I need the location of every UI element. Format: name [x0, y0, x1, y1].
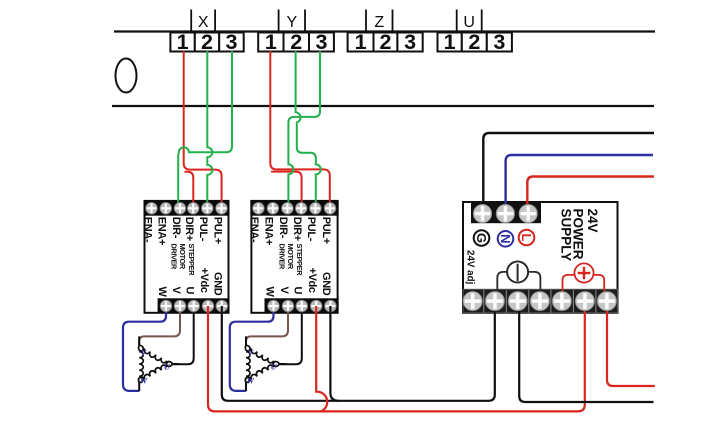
- terminal screws of driver U1: [146, 202, 228, 311]
- svg-text:DIR+: DIR+: [183, 217, 195, 241]
- axis label Y: [279, 10, 305, 32]
- PSU terminal label L (line): [519, 230, 535, 246]
- wire Y-motor U black (driver U to motor winding): [279, 306, 301, 364]
- svg-text:DIR+: DIR+: [291, 217, 303, 241]
- svg-text:DIR-: DIR-: [277, 217, 289, 239]
- svg-text:24V: 24V: [585, 209, 600, 233]
- wire Y-motor W blue (driver W to motor winding): [230, 306, 274, 391]
- svg-text:X: X: [198, 14, 209, 31]
- svg-text:ENA+: ENA+: [156, 217, 168, 245]
- svg-text:GND: GND: [320, 272, 332, 296]
- axis label Z: [366, 10, 393, 32]
- wire PSU +V out red (to right): [607, 306, 655, 386]
- wire: second bus line: [112, 105, 654, 107]
- wire Y3 green (terminal Y3 to DIR- of driver U2, hop over red): [288, 51, 320, 207]
- svg-text:W: W: [156, 287, 168, 298]
- svg-text:MOTOR: MOTOR: [178, 244, 187, 270]
- svg-text:STEPPER: STEPPER: [187, 244, 196, 277]
- svg-text:+Vdc: +Vdc: [306, 268, 318, 293]
- wire PSU -V out black (to right): [519, 306, 653, 402]
- svg-text:U: U: [271, 362, 278, 372]
- svg-text:U: U: [184, 287, 196, 295]
- terminal block Z pins 1-3: [348, 30, 423, 54]
- wire X3 green (terminal X3 to DIR- of driver U1, hop over X1): [178, 51, 232, 207]
- svg-text:1: 1: [177, 30, 189, 54]
- svg-text:1: 1: [444, 30, 456, 54]
- PSU DC output terminal strip: [463, 289, 618, 313]
- svg-text:U: U: [463, 14, 475, 31]
- svg-text:PUL+: PUL+: [320, 217, 332, 244]
- PSU label 24V adj: [464, 250, 475, 285]
- svg-text:2: 2: [290, 30, 302, 54]
- terminal screws of driver U2: [253, 202, 337, 311]
- PSU label 24V POWER SUPPLY: [558, 209, 600, 262]
- svg-text:3: 3: [315, 30, 327, 54]
- PSU terminal label N (neutral): [498, 231, 514, 247]
- terminal block Y pins 1-3: [258, 30, 334, 54]
- svg-text:3: 3: [225, 30, 237, 54]
- svg-text:GND: GND: [212, 272, 224, 296]
- svg-text:24V adj: 24V adj: [464, 250, 475, 285]
- svg-text:Z: Z: [374, 14, 384, 31]
- svg-text:U: U: [164, 362, 171, 372]
- wire Y1 red (terminal Y1 to DIR+/PUL+ of driver U2): [270, 51, 330, 207]
- wire GND rail black (driver U1 GND to PSU -V): [222, 306, 495, 401]
- stepper motor driver U1 (X axis): [141, 200, 229, 313]
- PSU +V output symbol (red circle with plus): [563, 263, 605, 291]
- stepper motor M2 (Y axis): [245, 336, 286, 391]
- terminal block X pins 1-3: [170, 30, 243, 54]
- wire AC ground black (right rail to PSU G): [483, 133, 654, 213]
- PSU AC terminal screws: [473, 204, 537, 222]
- wire +24V rail red (driver U1 +Vdc to PSU +V): [208, 306, 585, 411]
- svg-text:STEPPER: STEPPER: [295, 244, 304, 277]
- wire Y-motor V brown (driver V to motor winding): [246, 306, 288, 345]
- svg-text:DIR-: DIR-: [170, 217, 182, 239]
- wire X-motor V brown (driver V to motor winding): [139, 306, 180, 345]
- 24V power supply PSU body and AC terminal strip: [463, 202, 618, 313]
- svg-text:2: 2: [468, 30, 480, 54]
- svg-text:N: N: [498, 234, 513, 243]
- svg-text:DRIVER: DRIVER: [277, 244, 286, 271]
- svg-text:1: 1: [355, 30, 367, 54]
- axis label X: [191, 10, 215, 32]
- wire X1 red (terminal X1 to DIR+/PUL+ of driver U1): [184, 51, 222, 207]
- axis label U: [457, 10, 482, 32]
- wire AC neutral blue (right rail to PSU N): [506, 155, 653, 213]
- wire X2 green (terminal X2 to PUL- of driver U1, hops over X3 and X1 wires): [207, 51, 212, 207]
- wire driver U2 GND joining rail: [330, 306, 338, 401]
- PSU voltage-adjust symbol (circle with bar): [497, 262, 540, 292]
- svg-text:U: U: [292, 287, 304, 295]
- svg-text:ENA-: ENA-: [248, 217, 260, 243]
- svg-text:PUL-: PUL-: [305, 217, 317, 242]
- svg-text:2: 2: [379, 30, 391, 54]
- stepper motor M1 (X axis): [139, 336, 180, 391]
- svg-text:ENA+: ENA+: [263, 217, 275, 245]
- svg-text:L: L: [519, 234, 534, 242]
- svg-text:G: G: [474, 233, 489, 243]
- wire X-motor W blue (driver W to motor winding): [123, 306, 166, 391]
- stepper motor driver U2 (Y axis): [248, 200, 338, 313]
- svg-text:MOTOR: MOTOR: [286, 244, 295, 270]
- svg-text:3: 3: [493, 30, 505, 54]
- svg-text:Y: Y: [286, 14, 297, 31]
- svg-text:W: W: [263, 287, 275, 298]
- svg-text:PUL-: PUL-: [197, 217, 209, 242]
- wire: top bus line: [114, 30, 655, 32]
- wire X-motor U black (driver U to motor winding): [173, 306, 194, 364]
- svg-text:SUPPLY: SUPPLY: [558, 209, 573, 262]
- PSU DC terminal screws: [463, 292, 616, 311]
- svg-text:2: 2: [201, 30, 213, 54]
- svg-text:V: V: [170, 287, 182, 295]
- wire AC line red (right rail to PSU L): [527, 177, 654, 214]
- svg-text:V: V: [278, 287, 290, 295]
- terminal block U pins 1-3: [438, 30, 512, 54]
- PSU terminal label G (ground): [474, 230, 490, 246]
- svg-text:ENA-: ENA-: [141, 217, 153, 243]
- svg-text:3: 3: [404, 30, 416, 54]
- wire driver U2 +Vdc joining +24V rail with hop over GND rail: [316, 306, 327, 412]
- decorative oval marker: [116, 59, 137, 93]
- wire Y2 green (terminal Y2 to PUL- of driver U2, hops over Y3 and red): [296, 51, 321, 207]
- svg-text:DRIVER: DRIVER: [169, 244, 178, 271]
- svg-text:1: 1: [265, 30, 277, 54]
- svg-text:+Vdc: +Vdc: [198, 268, 210, 293]
- svg-text:PUL+: PUL+: [211, 217, 223, 244]
